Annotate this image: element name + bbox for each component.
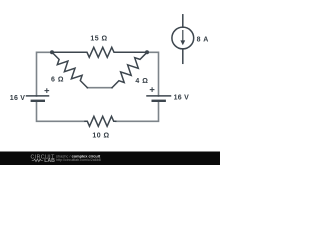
svg-text:6 Ω: 6 Ω bbox=[51, 76, 64, 83]
battery V1 short plate bbox=[32, 100, 44, 102]
svg-text:16 V: 16 V bbox=[174, 95, 189, 102]
wire: top-left from node A to left rail corner bbox=[37, 52, 53, 96]
resistor R2 6ohm (diagonal) bbox=[52, 52, 87, 87]
wire: left rail below battery V1 to bottom-left corner bbox=[37, 101, 86, 122]
footer bar bbox=[0, 152, 220, 166]
current source I1 arrow shaft bbox=[182, 31, 184, 41]
resistor R1 15ohm (top, horizontal) bbox=[52, 47, 147, 57]
logo resistor zigzag bbox=[32, 159, 43, 162]
battery V1 plus sign bbox=[45, 89, 49, 93]
current source I1 bottom lead bbox=[182, 49, 184, 63]
resistor R4 10ohm (bottom, horizontal) bbox=[85, 116, 116, 126]
wire: middle horizontal joining R2 and R3 bottoms bbox=[87, 87, 112, 89]
battery V2 long plate bbox=[147, 95, 171, 97]
svg-text:LAB: LAB bbox=[44, 158, 55, 164]
resistor R3 4ohm (diagonal) bbox=[112, 52, 147, 87]
svg-text:15 Ω: 15 Ω bbox=[90, 36, 107, 43]
wire: bottom-right from R10 to right rail up to battery V2 bbox=[116, 101, 159, 122]
node A junction dot bbox=[50, 50, 54, 54]
current source I1 arrowhead bbox=[180, 40, 185, 45]
svg-text:4 Ω: 4 Ω bbox=[135, 78, 148, 85]
battery V1 long plate bbox=[27, 95, 49, 97]
current source I1 circle bbox=[172, 27, 194, 49]
current source I1 top lead bbox=[182, 15, 184, 27]
svg-text:http://circuitlab.com/c/2a6b8: http://circuitlab.com/c/2a6b8 bbox=[56, 158, 101, 162]
battery V2 short plate bbox=[153, 100, 165, 102]
svg-text:16 V: 16 V bbox=[10, 95, 25, 102]
battery V2 plus sign bbox=[150, 88, 154, 92]
svg-text:10 Ω: 10 Ω bbox=[92, 133, 109, 140]
svg-text:8 A: 8 A bbox=[197, 36, 209, 43]
node B junction dot bbox=[145, 50, 149, 54]
wire: right rail above battery V2 to top-right corner to node B bbox=[147, 52, 159, 96]
